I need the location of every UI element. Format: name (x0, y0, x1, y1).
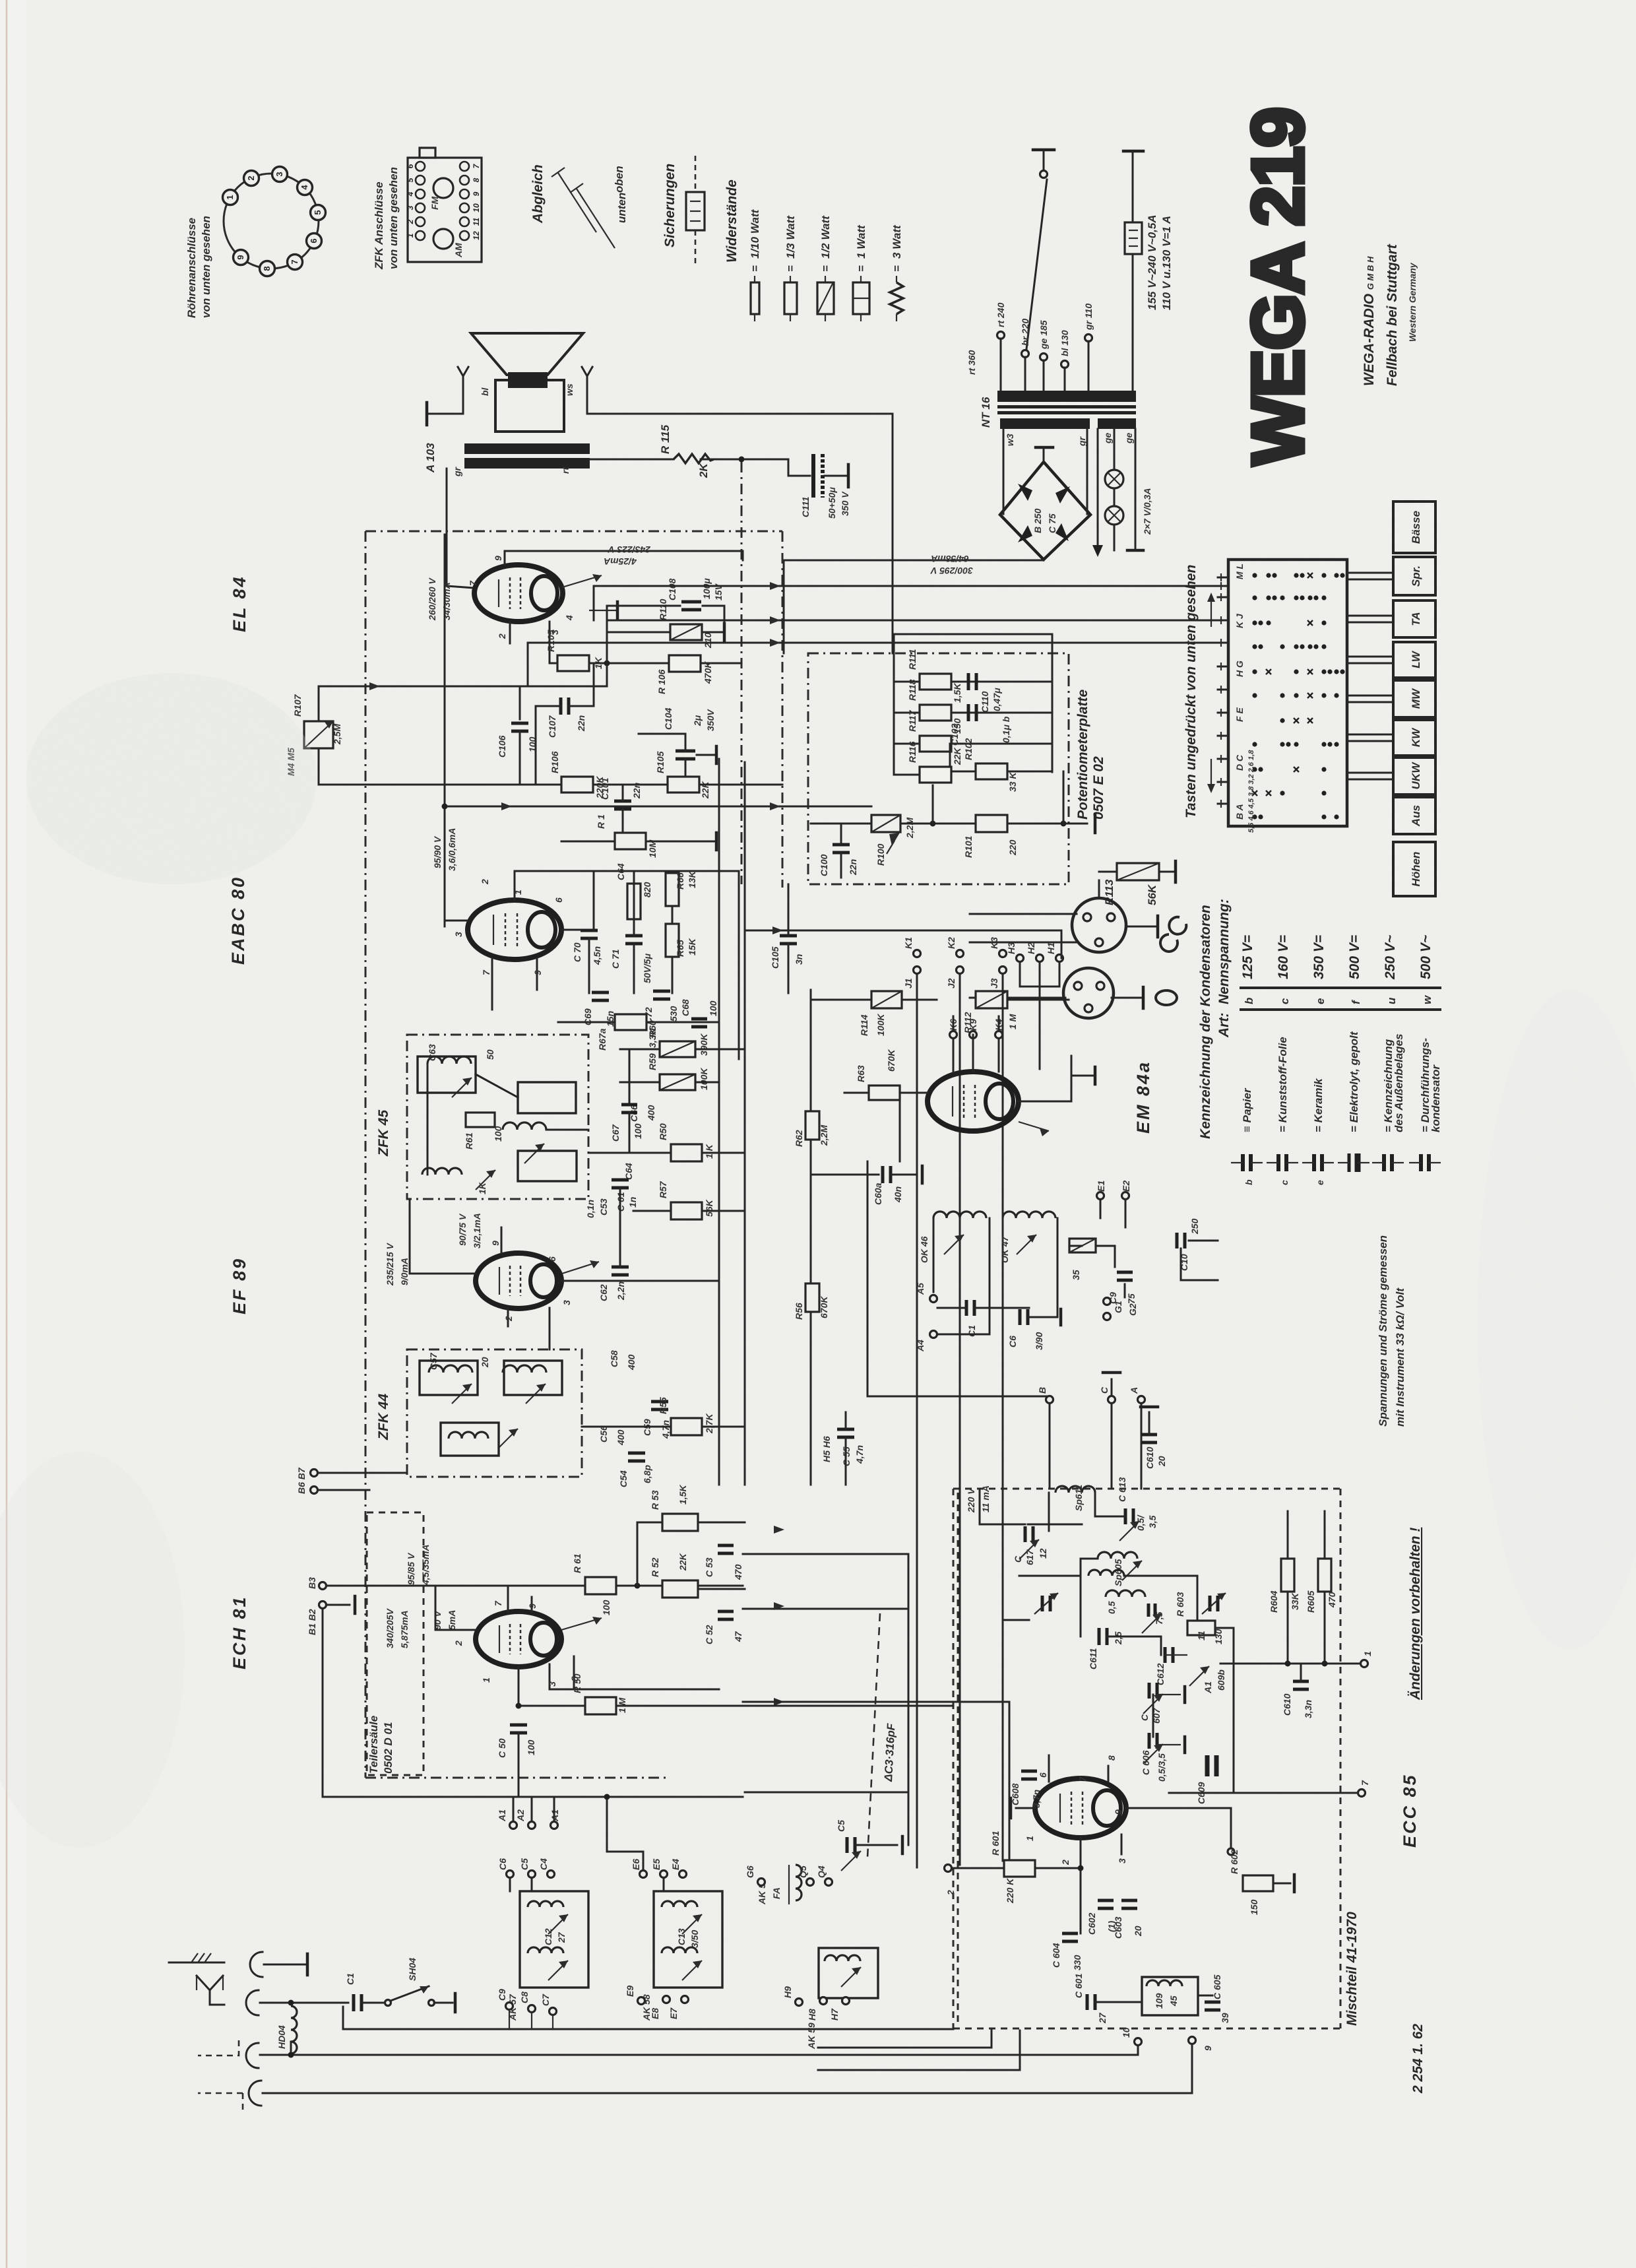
R604 33K R605 470 (1281, 1559, 1294, 1592)
C609 (1205, 1755, 1210, 1776)
fuse Si (1125, 222, 1142, 254)
antenna symbol (197, 1976, 223, 2005)
long antenna bus lines (260, 2054, 1138, 2056)
ZFK45 coil cans (418, 1056, 476, 1093)
Tastenaggregat matrix box (1228, 560, 1347, 826)
phone jack socket 1 (1072, 898, 1126, 952)
cap type = Keramik (1312, 1154, 1316, 1171)
tone network inside Potentiometerplatte (894, 633, 1052, 635)
B6 B7 terminals (311, 1470, 318, 1477)
main line y1189 with R106, R102 (319, 784, 561, 786)
mains switch (1040, 171, 1048, 178)
tube EF89 (476, 1253, 561, 1309)
speaker terminals (458, 367, 468, 376)
contacts K3 J3 (999, 950, 1007, 957)
G6 G5 G4 terminals (758, 1879, 765, 1886)
ZFK45 coils (427, 1056, 471, 1064)
extra vertical near EM84 (972, 1035, 974, 1072)
cap type = Elektrolyt, gepolt (1348, 1153, 1351, 1172)
cap type ≡ Papier (1241, 1154, 1245, 1171)
wire to phone jacks (745, 930, 1061, 932)
resistor R116 extra in tone box (920, 767, 951, 783)
solid corners at FM box bottom left (818, 2030, 991, 2048)
C50 100 (510, 1724, 527, 1727)
tube EABC80 (468, 900, 561, 959)
A1 A2 terminals (510, 1822, 517, 1829)
delta C3 diagonal (867, 1613, 880, 1858)
EM84 frame wires (899, 1093, 901, 1161)
main IF buses (718, 759, 720, 1485)
EL84 g2 line (505, 550, 743, 552)
svg-text:C67: C67 (610, 1124, 621, 1142)
C618 20n (1141, 1433, 1157, 1437)
band jacks 3 and 4 (246, 2043, 259, 2068)
ratio detector OK46 OK47 (933, 1212, 986, 1218)
C604 330 (1062, 1932, 1078, 1935)
phone jack socket 2 (1063, 968, 1114, 1018)
C55 4,7n + H5 H6 (837, 1428, 854, 1431)
R63 670K (869, 1085, 900, 1100)
C54 6,8p (628, 1452, 645, 1455)
FM box extra wiring (1028, 1524, 1082, 1526)
C105 (780, 934, 797, 938)
C611 2,5 (1098, 1628, 1101, 1645)
E8 E7 E9 terminals (638, 1997, 645, 2005)
bus lines to switch matrix (594, 585, 1218, 587)
R5 35 slashed (1069, 1239, 1096, 1252)
B+ rail 300/295V (784, 560, 1044, 562)
pilot lamps (1097, 429, 1099, 545)
tube socket pinout ring (224, 174, 319, 269)
contacts K2 J2 (957, 950, 964, 957)
K terminals (950, 1031, 957, 1039)
C613 0,5/3,5 (1124, 1508, 1127, 1524)
capacitor C68 100 (691, 1018, 707, 1021)
C6 (1019, 1309, 1022, 1325)
AM IF can AK57 (520, 1891, 588, 1988)
R115 (588, 459, 674, 461)
resistor R113 (1117, 863, 1159, 880)
resistor R117 (920, 736, 951, 752)
chassis dashed boundary (365, 531, 782, 533)
R100 pot 2,2M + C100 (871, 815, 900, 832)
C9 75 (1117, 1271, 1133, 1274)
coil HD04 (291, 2006, 297, 2054)
R107 pot 2,5M (304, 721, 333, 748)
C10 250 (1176, 1233, 1179, 1248)
C108 100u 15V (606, 606, 608, 632)
R55 27K (671, 1418, 702, 1435)
primary lead down to EL84 anode (446, 469, 448, 586)
Sp611 (1055, 1486, 1095, 1493)
R603 (1187, 1621, 1215, 1635)
tube EM84a (928, 1072, 1019, 1131)
paper background (0, 0, 1, 1)
E1 E2 terminals (1097, 1192, 1104, 1200)
C60a 40n (811, 1174, 879, 1176)
svg-text:R59: R59 (647, 1053, 658, 1070)
contact H1 (1056, 955, 1063, 962)
C1 (352, 1994, 356, 2011)
R67 3,3K (615, 1014, 646, 1030)
Sp605 + trimmer (1098, 1552, 1137, 1559)
band buttons (1393, 502, 1435, 553)
svg-text:130: 130 (1213, 1629, 1224, 1644)
resistor R59 100K (660, 1074, 695, 1090)
C107 22n (559, 697, 563, 715)
capacitor C67 100 (621, 1103, 637, 1107)
svg-text:R116: R116 (907, 741, 918, 763)
C106 100 (519, 686, 521, 719)
ZFK connector box (408, 158, 482, 262)
Sp905 coil + 7,5 trimmer (1106, 1590, 1145, 1597)
svg-text:R 106: R 106 (656, 669, 667, 694)
contacts K1 J1 (914, 950, 921, 957)
C61 1n / C53 0,1n / C62 2,2n (612, 1179, 629, 1182)
terminal 7 (1169, 1792, 1358, 1794)
cap type = Kunststoff-Folie (1276, 1154, 1280, 1171)
R53 R52 C53 C52 cluster (662, 1514, 698, 1531)
R61 100 (585, 1577, 616, 1594)
wire speaker to B+ vertical (587, 413, 893, 415)
antenna jack (246, 1990, 259, 2015)
C610 3,3n (1293, 1680, 1309, 1683)
R65 15K (666, 924, 679, 957)
R66 13K (666, 873, 679, 906)
svg-text:470K: 470K (703, 661, 713, 684)
E6 E5 E4 terminals (640, 1871, 647, 1878)
C7 C8 C9 terminals (506, 2003, 513, 2010)
R105 1K (557, 655, 589, 671)
svg-text:390K: 390K (699, 1033, 709, 1056)
C70 C71 (581, 929, 598, 932)
R601 220K (945, 1865, 952, 1872)
contact H3 (1017, 955, 1024, 962)
C110 0,47u (967, 673, 970, 690)
C104 2u 350V (676, 750, 695, 753)
AM bus lines (743, 1553, 908, 1555)
C103 0,1u (967, 704, 970, 721)
earth jack (250, 1952, 263, 1977)
resistor R111 (920, 674, 951, 690)
switch SH04 (385, 2000, 391, 2006)
R50 1K / R57 56K (671, 1144, 702, 1161)
R112 1M (976, 991, 1007, 1008)
svg-text:100: 100 (708, 1000, 718, 1016)
C101 22n (614, 800, 631, 803)
anode line EABC80 (515, 870, 739, 872)
A4 A5 C1 (930, 1295, 937, 1303)
C5 trimmer (846, 1837, 849, 1853)
cap type = Durchführungs- (1419, 1154, 1423, 1171)
earth symbol (169, 1962, 224, 1964)
C601 27 (1086, 1994, 1089, 2010)
C607 (1148, 1683, 1151, 1699)
R110 210 (606, 632, 608, 663)
matrix terminal stubs (1218, 577, 1228, 579)
svg-text:R60: R60 (647, 1020, 658, 1037)
C608 3,7n (1021, 1770, 1037, 1773)
cap type = Kennzeichnung (1382, 1154, 1386, 1171)
ground T left of speaker (427, 413, 463, 415)
bridge rectifier B250 C75 (1003, 429, 1005, 514)
trimmer 609b (1189, 1666, 1209, 1686)
G1 G2 (1104, 1298, 1111, 1305)
svg-text:C68: C68 (680, 999, 691, 1016)
svg-text:11: 11 (1196, 1631, 1207, 1640)
C59 4,7n (651, 1400, 668, 1404)
C602 C603 (1098, 1899, 1114, 1902)
R114 100K (871, 991, 902, 1008)
output transformer A103 (464, 443, 590, 454)
C69 15n / C72 530 (592, 991, 609, 994)
mains plug pin 1 (1033, 148, 1054, 152)
C612 (1164, 1647, 1167, 1663)
terminal 1 (1220, 1663, 1360, 1665)
wires ratio detector to terminals (937, 1334, 990, 1336)
Teilersaeule dashed box (367, 1512, 424, 1775)
speaker (471, 333, 583, 375)
trimmer cap X 1 (1041, 1596, 1044, 1611)
AM IF can AK58 (654, 1891, 722, 1988)
matrix contacts (1252, 573, 1257, 577)
C111 electrolytic 50+50u (788, 459, 790, 476)
scan edge line (6, 0, 8, 2268)
FM internal wires (979, 1489, 981, 1524)
headphone icon (970, 913, 1077, 915)
ZFK44 box (407, 1349, 582, 1477)
dashed stubs at jacks (198, 2040, 239, 2056)
voltage selector taps (997, 332, 1005, 339)
tube EL84 (474, 565, 563, 622)
line from switch to FM box bottom (343, 2028, 953, 2030)
trimmer cap X 2 (1209, 1596, 1212, 1611)
C617 12 (1024, 1526, 1027, 1542)
C6 C5 C4 terminals (507, 1871, 514, 1878)
Potentiometerplatte dashed box (808, 653, 1069, 884)
Mischteil dashed box (953, 1488, 1340, 1490)
R56 670K (805, 1283, 819, 1312)
R101 220 (811, 823, 871, 825)
R64 820 (627, 884, 641, 919)
resistor R106 470K (669, 655, 701, 672)
tube ECH81 (476, 1611, 561, 1667)
ZFK44 coil cans (420, 1361, 478, 1395)
R602 150 (1228, 1848, 1234, 1855)
C605 39 (1205, 2001, 1220, 2004)
mains plug pin 2 (1123, 150, 1143, 153)
wire R107 feedback extension (520, 686, 607, 688)
tube ECC85 (1035, 1778, 1126, 1838)
resistor R60 390K (660, 1041, 695, 1057)
R102 3,3K (976, 763, 1007, 779)
R50 1M (585, 1697, 616, 1714)
IF transformer ZFK45 (407, 1035, 588, 1199)
Sp601 109 45 (1142, 1977, 1198, 2015)
R1 10M (615, 833, 646, 849)
resistor R118 (920, 705, 951, 721)
C606 0,5/3,5 (1148, 1733, 1151, 1749)
svg-text:100K: 100K (699, 1068, 709, 1090)
contact H2 (1036, 955, 1044, 962)
R62 2,2M (805, 1111, 819, 1140)
B terminals (319, 1582, 327, 1590)
lines to B C A terminals (867, 1161, 869, 1396)
svg-text:100: 100 (633, 1123, 643, 1139)
AM IF can AK59 (819, 1948, 878, 1998)
